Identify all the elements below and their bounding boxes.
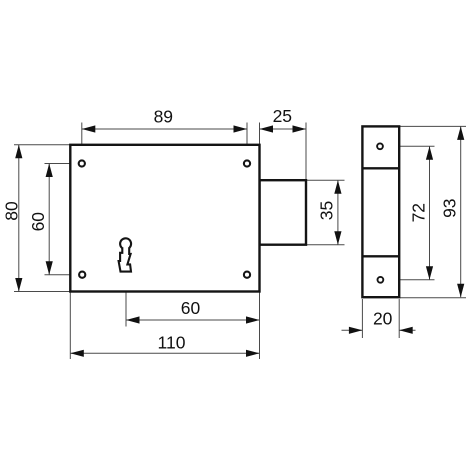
wire ext 80 top: [14, 144, 70, 146]
arrow 110 right: [246, 350, 260, 357]
side view faceplate: [362, 126, 399, 297]
wire ext 25 left: [259, 123, 261, 145]
arrow 110 left: [70, 350, 84, 357]
svg-text:60: 60: [181, 298, 201, 318]
keyhole: [119, 238, 132, 271]
divider top: [362, 167, 399, 169]
latch bolt: [260, 180, 307, 245]
wire ext 20 right: [398, 299, 400, 338]
side hole top: [377, 143, 383, 149]
lock body front view: [70, 145, 306, 292]
svg-text:80: 80: [2, 201, 22, 221]
arrow 35 bottom: [334, 231, 341, 245]
wire ext 60 bottom: [45, 274, 83, 276]
arrow 25 left: [260, 125, 274, 132]
wire ext 89 left: [81, 123, 83, 164]
wire dim 35: [337, 180, 339, 245]
hole top-right: [244, 160, 250, 166]
wire dim 60 left: [48, 164, 50, 275]
svg-text:93: 93: [440, 198, 460, 217]
wire ext 35 top: [306, 179, 345, 181]
divider bottom: [362, 255, 399, 257]
wire dim 110: [70, 352, 259, 354]
arrow 60B left: [126, 316, 140, 323]
wire ext keyhole: [125, 273, 127, 327]
hole bottom-right: [244, 272, 250, 278]
wire dim 20 tails: [342, 329, 363, 331]
wire dim 72: [429, 146, 431, 279]
svg-text:35: 35: [317, 201, 337, 220]
wire ext 35 bottom: [306, 244, 345, 246]
wire ext 60 top: [45, 163, 82, 165]
wire ext 93 top: [399, 125, 466, 127]
svg-text:110: 110: [158, 333, 186, 353]
arrow 60L top: [46, 164, 53, 178]
arrow 89 left: [82, 125, 96, 132]
lock case rect: [70, 145, 259, 292]
wire dim 60 bottom: [126, 319, 260, 321]
wire dim 25: [260, 128, 307, 130]
arrow 20 right: [399, 327, 413, 334]
wire ext 110 left: [69, 292, 71, 360]
side hole bottom: [378, 277, 384, 283]
arrow 35 top: [334, 180, 341, 194]
wire ext 25 right: [305, 123, 307, 181]
hole top-left: [79, 160, 85, 166]
svg-text:25: 25: [273, 106, 292, 126]
wire dim 89: [82, 128, 247, 130]
wire ext 80 bottom: [14, 291, 70, 293]
svg-text:60: 60: [28, 212, 48, 232]
svg-text:89: 89: [154, 106, 173, 126]
wire ext 72 bottom: [384, 279, 435, 281]
wire ext 72 top: [384, 145, 435, 147]
svg-text:20: 20: [373, 309, 393, 329]
wire dim 93: [460, 126, 462, 297]
arrow 60L bottom: [46, 261, 53, 275]
wire dim 80: [18, 145, 20, 292]
arrow 93 bottom: [457, 284, 464, 298]
screw holes front: [79, 160, 250, 277]
arrow 25 right: [293, 125, 307, 132]
svg-text:72: 72: [408, 203, 428, 222]
wire ext 110 right: [259, 292, 261, 360]
dimension lines: [19, 126, 461, 353]
arrow 89 right: [234, 125, 248, 132]
extension lines front view: [14, 123, 466, 360]
arrow 93 top: [457, 126, 464, 139]
faceplate outline: [362, 126, 399, 297]
arrow 72 top: [426, 146, 433, 160]
arrowheads: [15, 125, 464, 357]
hole bottom-left: [79, 272, 85, 278]
side holes: [377, 143, 383, 282]
arrow 72 bottom: [426, 266, 433, 280]
arrow 80 top: [15, 145, 22, 159]
arrow 60B right: [246, 316, 260, 323]
arrow 80 bottom: [15, 278, 22, 292]
wire ext 93 bottom: [399, 297, 466, 299]
dimension texts: [2, 106, 460, 353]
wire ext 89 right: [246, 123, 248, 164]
wire ext 20 left: [361, 299, 363, 338]
arrow 20 left: [349, 327, 363, 334]
